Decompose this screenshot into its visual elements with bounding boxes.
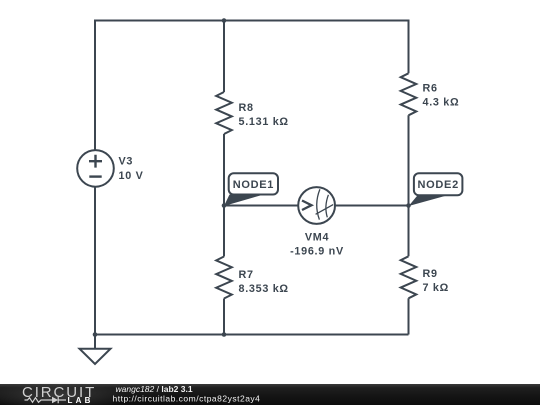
wire right rail lower xyxy=(408,298,410,334)
svg-text:R9: R9 xyxy=(423,268,438,280)
VM4 meter arc 2 xyxy=(326,195,329,218)
wire voltmeter right xyxy=(334,205,408,207)
voltage source V3 circle xyxy=(77,150,114,187)
wire voltmeter left xyxy=(224,205,299,207)
svg-text:NODE1: NODE1 xyxy=(233,179,274,191)
junction dot bottom middle xyxy=(222,332,227,337)
node B NODE2 callout box xyxy=(414,173,463,195)
svg-text:NODE2: NODE2 xyxy=(417,179,458,191)
wire middle branch upper xyxy=(223,21,225,93)
wire left rail upper xyxy=(94,21,96,151)
wire middle branch lower xyxy=(223,299,225,335)
node B NODE2 callout pointer xyxy=(409,195,449,206)
footer logo glow xyxy=(0,382,132,405)
svg-text:8.353 kΩ: 8.353 kΩ xyxy=(239,283,289,295)
node A NODE1 callout pointer xyxy=(224,195,263,207)
footer logo resistor-diode glyph xyxy=(25,397,67,404)
svg-text:V3: V3 xyxy=(119,156,134,168)
VM4 meter needle xyxy=(316,205,334,215)
resistor R7 xyxy=(216,257,232,299)
footer logo diode triangle xyxy=(52,397,58,404)
svg-text:R8: R8 xyxy=(239,102,254,114)
wire right rail upper xyxy=(408,21,410,74)
junction dot bottom left xyxy=(93,332,98,337)
ground symbol xyxy=(80,349,111,364)
svg-text:-196.9 nV: -196.9 nV xyxy=(290,246,344,258)
svg-text:10 V: 10 V xyxy=(119,170,144,182)
svg-text:LAB: LAB xyxy=(68,396,94,405)
wire left rail lower xyxy=(94,187,96,335)
svg-text:http://circuitlab.com/ctpa82ys: http://circuitlab.com/ctpa82yst2ay4 xyxy=(113,394,261,404)
VM4 meter arc 1 xyxy=(317,189,320,219)
resistor R6 xyxy=(401,73,417,115)
VM4 arrow glyph xyxy=(302,201,312,211)
svg-text:R7: R7 xyxy=(239,269,254,281)
svg-text:4.3 kΩ: 4.3 kΩ xyxy=(423,97,460,109)
resistor R9 xyxy=(401,256,417,298)
voltmeter VM4 circle xyxy=(298,187,335,224)
V3 plus sign xyxy=(89,155,102,168)
wire ground stem xyxy=(94,335,96,350)
junction dot top middle xyxy=(222,18,227,23)
wire right rail mid xyxy=(408,115,410,256)
svg-text:VM4: VM4 xyxy=(305,232,329,244)
svg-text:5.131 kΩ: 5.131 kΩ xyxy=(239,116,289,128)
node A NODE1 callout box xyxy=(229,173,278,194)
svg-text:R6: R6 xyxy=(423,83,438,95)
junction node NODE1 dot xyxy=(222,203,227,208)
junction node NODE2 dot xyxy=(406,203,411,208)
wire middle branch mid xyxy=(223,134,225,257)
V3 minus sign xyxy=(89,175,101,177)
svg-text:7 kΩ: 7 kΩ xyxy=(423,282,449,294)
wire bottom rail xyxy=(95,334,409,336)
svg-text:wangc182 / lab2 3.1: wangc182 / lab2 3.1 xyxy=(116,384,193,394)
resistor R8 xyxy=(216,92,232,134)
footer bar xyxy=(0,384,540,405)
wire top rail xyxy=(94,20,410,22)
